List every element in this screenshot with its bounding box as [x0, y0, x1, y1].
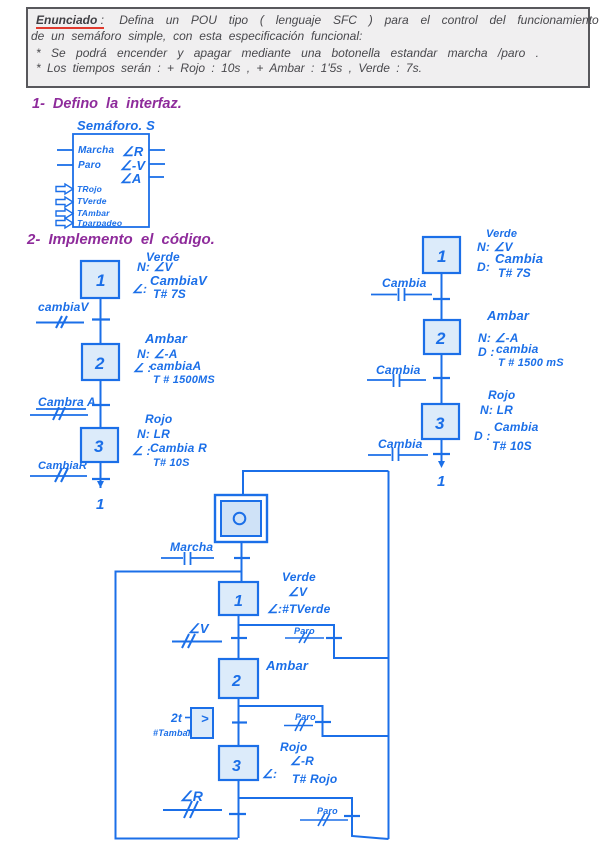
- action N: L-A (left col): [137, 347, 178, 361]
- svg-text:T# 7S: T# 7S: [153, 287, 186, 301]
- branch wire Paro 3: [239, 798, 389, 839]
- input label TRojo: [77, 184, 102, 194]
- NO contact Cambia 3: [368, 448, 428, 461]
- svg-text:Tparpadeo: Tparpadeo: [77, 218, 122, 228]
- wire step2 down: [238, 698, 240, 746]
- svg-text:Semáforo. S: Semáforo. S: [77, 118, 155, 133]
- heading 2: [27, 231, 215, 248]
- transition label LR: [180, 788, 204, 804]
- action text Ambar (bottom step2): [265, 658, 309, 673]
- action text Ambar (left col step2): [144, 331, 188, 346]
- svg-text:Cambia: Cambia: [382, 276, 427, 290]
- transition tick LV: [231, 637, 247, 639]
- svg-text:Ambar: Ambar: [144, 331, 188, 346]
- output label L_R: [122, 144, 144, 159]
- svg-text:∠V: ∠V: [188, 621, 210, 636]
- NC contact cambiaV: [36, 316, 84, 328]
- action N: L_V (right col): [477, 240, 514, 254]
- svg-text:Cambia: Cambia: [495, 251, 543, 266]
- wire below step3: [100, 462, 102, 488]
- initial step 0: [215, 495, 267, 542]
- svg-text:cambiaV: cambiaV: [38, 300, 90, 314]
- function block body U1: [73, 134, 149, 227]
- transition label Marcha: [170, 540, 213, 554]
- output wire L_V: [149, 163, 165, 165]
- svg-text:Paro: Paro: [317, 806, 338, 816]
- NO contact Marcha: [161, 552, 214, 565]
- svg-text:Cambia: Cambia: [376, 363, 421, 377]
- transition tick Cambia 2 (right column): [433, 377, 450, 379]
- comparator input label #Tambar: [153, 728, 192, 738]
- transition tick Paro 3: [344, 815, 360, 817]
- svg-text:∠ :: ∠ :: [132, 444, 151, 458]
- input label Paro: [78, 160, 101, 171]
- step 2 (right column): [424, 320, 460, 354]
- svg-text:T# 7S: T# 7S: [498, 266, 531, 280]
- input wire Paro: [57, 164, 73, 166]
- transition label Cambia 3 (right column): [378, 437, 423, 451]
- wire step1 down: [238, 615, 240, 659]
- svg-text:∠V: ∠V: [288, 585, 308, 599]
- step 2 (left column): [82, 344, 119, 380]
- transition tick Cambia 3 (right column): [433, 453, 450, 455]
- transition tick cambiaR: [92, 478, 110, 480]
- block arrow input TRojo: [56, 184, 73, 194]
- step 2 (bottom SFC): [219, 659, 258, 698]
- input wire Marcha: [57, 149, 73, 151]
- left feedback loop wire: [116, 572, 242, 839]
- action text Rojo (left col step3): [145, 412, 172, 426]
- action N: L_V (left col): [137, 260, 174, 274]
- svg-text:Cambra A: Cambra A: [38, 395, 96, 409]
- action text Verde (bottom step1): [267, 570, 331, 616]
- NC contact LV: [172, 634, 222, 648]
- action text Verde (left col step1): [146, 250, 180, 264]
- step 1 (left column): [81, 261, 119, 298]
- block arrow input Tparpadeo: [56, 218, 73, 228]
- svg-text:3: 3: [232, 758, 241, 775]
- step 1 (right column): [423, 237, 460, 273]
- input label TVerde: [77, 196, 107, 206]
- transition tick LR: [229, 813, 246, 815]
- transition label Paro 3: [317, 806, 338, 816]
- step 1 (bottom SFC): [219, 582, 258, 615]
- wire step0 to step1: [241, 542, 243, 582]
- svg-text:T# Rojo: T# Rojo: [292, 772, 337, 786]
- jump arrow to step 1: [96, 481, 105, 513]
- svg-text:Marcha: Marcha: [78, 145, 114, 156]
- NO contact Cambia 1: [371, 288, 432, 301]
- svg-text:2: 2: [231, 673, 241, 690]
- transition label Paro 1: [294, 626, 315, 636]
- svg-text:1: 1: [437, 247, 447, 266]
- svg-text:#Tambar: #Tambar: [153, 728, 192, 738]
- action L: cambiaA (left col): [133, 359, 215, 386]
- svg-text:Paro: Paro: [78, 160, 101, 171]
- svg-text:Marcha: Marcha: [170, 540, 213, 554]
- action text Verde (right col step1): [486, 228, 517, 240]
- svg-text:TVerde: TVerde: [77, 196, 107, 206]
- input label Marcha: [78, 145, 114, 156]
- action L: CambiaR (left col): [132, 441, 207, 469]
- svg-text:3: 3: [435, 414, 445, 433]
- action text Rojo (bottom step3): [262, 740, 337, 786]
- svg-text:Rojo: Rojo: [280, 740, 307, 754]
- transition label cambiaR: [38, 460, 87, 472]
- svg-text:N: LR: N: LR: [137, 427, 170, 441]
- output label L_V: [120, 158, 146, 173]
- NO contact Cambia 2: [367, 374, 426, 387]
- svg-text:CambiaR: CambiaR: [38, 460, 87, 472]
- block arrow input TAmbar: [56, 209, 73, 219]
- svg-text:Cambia R: Cambia R: [150, 441, 207, 455]
- action text Ambar (right col step2): [486, 308, 530, 323]
- svg-text:TAmbar: TAmbar: [77, 208, 110, 218]
- svg-text:>: >: [201, 711, 209, 726]
- transition tick Paro 1: [326, 637, 342, 639]
- heading 1: [32, 96, 182, 112]
- NC contact Paro 3: [300, 813, 348, 826]
- svg-text:Rojo: Rojo: [488, 388, 515, 402]
- svg-text:T # 1500 mS: T # 1500 mS: [498, 357, 564, 369]
- block arrow input TVerde: [56, 197, 73, 207]
- svg-text:∠R: ∠R: [122, 144, 144, 159]
- transition label Paro 2: [295, 712, 316, 722]
- wire step1 to step2 (right column): [441, 273, 443, 320]
- svg-text:∠A: ∠A: [120, 171, 141, 186]
- svg-text:N: ∠V: N: ∠V: [137, 260, 174, 274]
- action N: LR (right col): [480, 403, 513, 417]
- output wire L_R: [149, 149, 165, 151]
- svg-text:Rojo: Rojo: [145, 412, 172, 426]
- svg-text:D:: D:: [477, 260, 490, 274]
- action N: L-A (right col): [478, 331, 519, 345]
- step 3 (left column): [81, 428, 118, 462]
- action D: Cambia (right col step3): [474, 420, 539, 453]
- wire step2 to step3 (right column): [441, 354, 443, 404]
- transition tick Paro 2: [315, 721, 331, 723]
- comparator box 2t > #Tambar: [185, 708, 213, 738]
- input label TAmbar: [77, 208, 110, 218]
- output label L_A: [120, 171, 141, 186]
- action D: Cambia (right col step1): [477, 251, 543, 280]
- right rail wire: [388, 471, 390, 839]
- wire step3 down: [238, 780, 240, 838]
- jump arrow to step 1 (right column): [437, 461, 446, 490]
- svg-text:TRojo: TRojo: [77, 184, 102, 194]
- svg-text:cambia: cambia: [496, 342, 539, 356]
- wire top feedback from step0 to right rail: [243, 471, 389, 495]
- svg-text:Cambia: Cambia: [378, 437, 423, 451]
- svg-text:∠:#TVerde: ∠:#TVerde: [267, 602, 331, 616]
- svg-text:T # 1500MS: T # 1500MS: [153, 374, 215, 386]
- svg-text:2: 2: [94, 354, 105, 373]
- svg-text:T# 10S: T# 10S: [153, 457, 190, 469]
- comparator input label 2t: [170, 711, 183, 725]
- enunciado statement box: [26, 7, 590, 88]
- NC contact Paro 1: [285, 632, 324, 643]
- svg-text:2: 2: [435, 329, 446, 348]
- svg-text:1: 1: [96, 496, 105, 513]
- svg-text:D :: D :: [474, 429, 491, 443]
- svg-text:cambiaA: cambiaA: [150, 359, 201, 373]
- transition tick cambiaA: [92, 404, 110, 406]
- svg-text:Ambar: Ambar: [265, 658, 309, 673]
- transition tick cambiaV: [92, 318, 110, 320]
- input label Tparpadeo: [77, 218, 122, 228]
- svg-text:2t: 2t: [170, 711, 183, 725]
- transition label cambiaV: [38, 300, 90, 314]
- action D: cambia (right col step2): [478, 342, 564, 369]
- svg-text:∠:: ∠:: [132, 282, 147, 296]
- svg-text:D :: D :: [478, 345, 495, 359]
- svg-text:N: LR: N: LR: [480, 403, 513, 417]
- svg-text:∠ :: ∠ :: [133, 361, 152, 375]
- NC contact cambiaA: [30, 407, 88, 420]
- svg-text:Verde: Verde: [486, 228, 517, 240]
- action text Rojo (right col step3): [488, 388, 515, 402]
- transition label Cambia 2 (right column): [376, 363, 421, 377]
- transition tick Marcha: [234, 557, 250, 559]
- transition label cambiaA: [38, 395, 96, 409]
- transition tick Cambia 1 (right column): [433, 298, 450, 300]
- wire below step3 (right column): [441, 439, 443, 462]
- NC contact cambiaR: [30, 468, 87, 482]
- svg-text:Paro: Paro: [294, 626, 315, 636]
- output wire L_A: [149, 176, 164, 178]
- svg-text:1: 1: [96, 271, 106, 290]
- action N: LR (left col): [137, 427, 170, 441]
- step 3 (bottom SFC): [219, 746, 258, 780]
- svg-text:1: 1: [437, 473, 446, 490]
- svg-text:∠:: ∠:: [262, 767, 277, 781]
- svg-text:Verde: Verde: [282, 570, 316, 584]
- interface title Semaforo.S: [77, 118, 155, 133]
- svg-text:Cambia: Cambia: [494, 420, 539, 434]
- transition label Cambia 1 (right column): [382, 276, 427, 290]
- svg-text:3: 3: [94, 437, 104, 456]
- step 3 (right column): [422, 404, 459, 439]
- svg-text:Ambar: Ambar: [486, 308, 530, 323]
- transition label LV: [188, 621, 210, 636]
- svg-text:T# 10S: T# 10S: [492, 439, 532, 453]
- wire step2 to step3: [100, 380, 102, 428]
- branch wire Paro 1: [239, 625, 389, 658]
- NC contact LR: [163, 801, 222, 818]
- transition tick 2t comparator: [232, 721, 247, 723]
- svg-text:∠-R: ∠-R: [290, 754, 314, 768]
- svg-text:CambiaV: CambiaV: [150, 273, 208, 288]
- branch wire Paro 2: [239, 706, 389, 736]
- svg-text:1: 1: [234, 593, 243, 610]
- NC contact Paro 2: [284, 719, 313, 731]
- action L: CambiaV (left col): [132, 273, 208, 301]
- wire step1 to step2: [100, 298, 102, 344]
